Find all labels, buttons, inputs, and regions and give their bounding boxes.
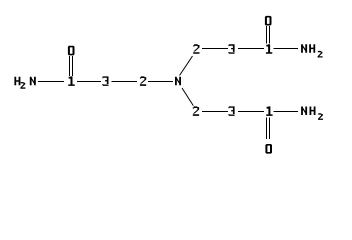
wire bond C3-C1 lower xyxy=(238,111,264,113)
wire diagonal bond N-C2 lower xyxy=(182,88,193,106)
node O left carbonyl oxygen xyxy=(68,46,75,56)
node C2 left xyxy=(140,76,146,86)
node NH2 lower amide label xyxy=(301,107,323,120)
wire double bond C1=O lower xyxy=(267,118,270,140)
node C1 left carbonyl carbon xyxy=(68,76,74,86)
wire bond C2-C3 lower xyxy=(202,111,228,113)
wire diagonal bond N-C2 upper xyxy=(180,56,193,76)
node O upper carbonyl oxygen xyxy=(265,16,272,26)
wire bond H2N-C1 left xyxy=(38,81,64,83)
node C3 lower xyxy=(228,106,234,116)
node H2N (left amide NH2 label) xyxy=(14,77,35,89)
wire bond C3-C1 upper xyxy=(238,48,264,50)
wire bond C3-C2 left xyxy=(112,81,138,83)
wire bond C1-NH2 lower xyxy=(274,111,299,113)
wire double bond C1=O left xyxy=(70,56,73,76)
wire bond C1-C3 left xyxy=(77,81,101,83)
node C1 lower carbonyl carbon xyxy=(266,106,272,116)
wire bond C2-C3 upper xyxy=(202,48,228,50)
wire bond C2-N left xyxy=(148,81,173,83)
node N central amine nitrogen xyxy=(175,77,181,86)
node O lower carbonyl oxygen xyxy=(265,144,272,154)
node C2 lower xyxy=(193,106,199,116)
wire double bond C1=O upper xyxy=(267,26,270,44)
node C3 upper xyxy=(228,44,234,54)
node NH2 upper amide label xyxy=(301,44,323,57)
wire bond C1-NH2 upper xyxy=(274,48,299,50)
node C1 upper carbonyl carbon xyxy=(266,44,272,54)
node C2 upper xyxy=(193,44,199,54)
node C3 left xyxy=(102,76,108,86)
